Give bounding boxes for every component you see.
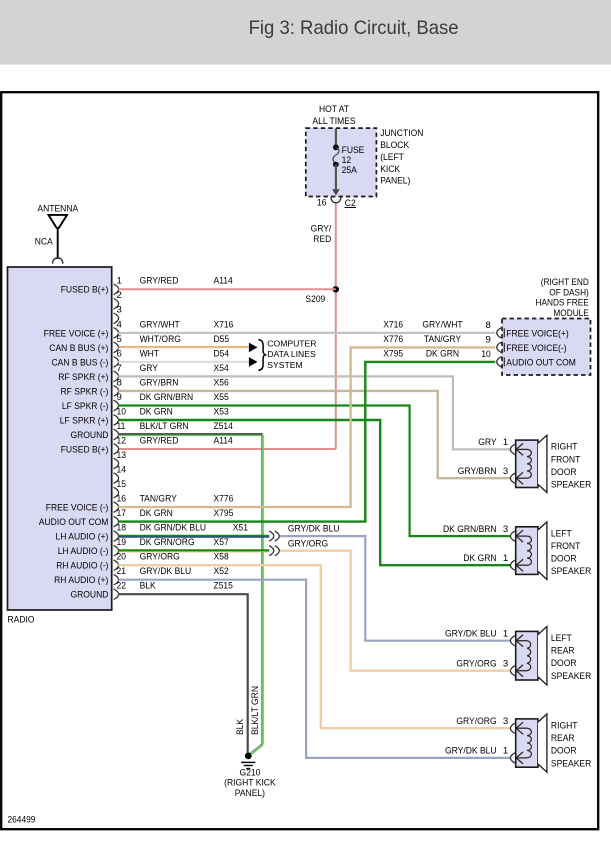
svg-text:8: 8 bbox=[485, 320, 490, 331]
svg-text:(RIGHT END: (RIGHT END bbox=[541, 277, 589, 287]
svg-text:SPEAKER: SPEAKER bbox=[551, 566, 591, 577]
svg-text:GRY/DK BLU: GRY/DK BLU bbox=[288, 524, 340, 535]
svg-text:Z515: Z515 bbox=[214, 581, 233, 592]
svg-text:D54: D54 bbox=[214, 348, 230, 359]
wire DK GRN/DK BLU pin18 to inline connector bbox=[118, 536, 269, 538]
wire GRY/ORG to left rear speaker pin3 bbox=[280, 551, 510, 671]
svg-text:COMPUTER: COMPUTER bbox=[267, 338, 316, 348]
radio pin 3 connector bbox=[114, 313, 119, 324]
svg-text:FREE VOICE (-): FREE VOICE (-) bbox=[46, 503, 109, 514]
radio pin 16 connector bbox=[114, 502, 119, 513]
svg-text:15: 15 bbox=[117, 479, 127, 490]
svg-text:11: 11 bbox=[117, 421, 126, 432]
svg-text:RH AUDIO (+): RH AUDIO (+) bbox=[54, 575, 108, 586]
radio pin 17 connector bbox=[114, 516, 119, 527]
svg-text:GRY/ORG: GRY/ORG bbox=[456, 659, 496, 670]
svg-text:DK GRN: DK GRN bbox=[463, 553, 496, 564]
wire WHT/ORG pin5 to data-lines arrow bbox=[118, 347, 248, 349]
svg-text:SYSTEM: SYSTEM bbox=[267, 360, 302, 370]
svg-text:FRONT: FRONT bbox=[551, 454, 581, 465]
svg-text:1: 1 bbox=[503, 629, 508, 640]
svg-text:RED: RED bbox=[313, 234, 331, 245]
svg-text:GRY/ORG: GRY/ORG bbox=[456, 716, 496, 727]
svg-text:20: 20 bbox=[117, 552, 127, 563]
hands-free pin 10 bbox=[497, 357, 502, 368]
svg-text:GRY/DK BLU: GRY/DK BLU bbox=[140, 566, 192, 577]
svg-text:KICK: KICK bbox=[380, 164, 400, 175]
wire GRY/ORG pin20 to right rear speaker pin3 bbox=[118, 565, 510, 728]
left rear door speaker bbox=[445, 627, 591, 686]
hands free module box bbox=[502, 319, 591, 376]
wire DK GRN pin10 to left front speaker pin1 bbox=[118, 420, 510, 565]
svg-text:GRY/DK BLU: GRY/DK BLU bbox=[445, 629, 497, 640]
svg-text:1: 1 bbox=[503, 553, 508, 564]
svg-text:NCA: NCA bbox=[35, 237, 54, 248]
radio pin 4 connector bbox=[114, 328, 119, 339]
svg-text:GRY/ORG: GRY/ORG bbox=[140, 552, 180, 563]
svg-text:DK GRN: DK GRN bbox=[426, 349, 459, 360]
svg-text:LEFT: LEFT bbox=[551, 528, 572, 539]
wire GRY/RED fuse to S209 to pin12 bbox=[335, 204, 337, 449]
svg-text:PANEL): PANEL) bbox=[380, 176, 410, 187]
hands-free pin 8 bbox=[497, 328, 502, 339]
svg-text:FUSED B(+): FUSED B(+) bbox=[61, 444, 109, 455]
svg-text:DOOR: DOOR bbox=[551, 467, 577, 478]
svg-text:12: 12 bbox=[117, 435, 127, 446]
svg-text:LF SPKR (-): LF SPKR (-) bbox=[62, 401, 109, 412]
svg-text:SPEAKER: SPEAKER bbox=[551, 671, 591, 682]
svg-text:AUDIO OUT COM: AUDIO OUT COM bbox=[39, 517, 109, 528]
svg-text:17: 17 bbox=[117, 508, 127, 519]
svg-text:REAR: REAR bbox=[551, 733, 575, 744]
svg-text:SPEAKER: SPEAKER bbox=[551, 480, 591, 491]
svg-text:GRY/WHT: GRY/WHT bbox=[422, 320, 462, 331]
svg-text:WHT/ORG: WHT/ORG bbox=[140, 334, 181, 345]
radio pin 20 connector bbox=[114, 560, 119, 571]
wire GRY/DK BLU pin21 to right rear speaker pin1 bbox=[118, 580, 510, 758]
svg-text:DOOR: DOOR bbox=[551, 746, 577, 757]
computer data lines arrows bbox=[249, 343, 258, 353]
wire DK GRN/ORG pin19 to inline connector bbox=[118, 550, 269, 552]
svg-text:X52: X52 bbox=[214, 566, 229, 577]
svg-text:3: 3 bbox=[503, 716, 508, 727]
svg-text:X795: X795 bbox=[383, 349, 403, 360]
svg-text:16: 16 bbox=[117, 494, 127, 505]
svg-text:18: 18 bbox=[117, 523, 127, 534]
svg-text:GRY/DK BLU: GRY/DK BLU bbox=[445, 746, 497, 757]
svg-text:MODULE: MODULE bbox=[553, 308, 588, 318]
svg-text:FRONT: FRONT bbox=[551, 541, 581, 552]
svg-text:GRY: GRY bbox=[140, 363, 159, 374]
svg-text:GROUND: GROUND bbox=[71, 590, 109, 601]
radio pin 2 connector bbox=[114, 299, 119, 310]
wire GRY/BRN pin8 to right front speaker pin3 bbox=[118, 391, 510, 478]
svg-text:WHT: WHT bbox=[140, 348, 160, 359]
svg-text:X57: X57 bbox=[214, 537, 229, 548]
wire WHT pin6 to data-lines arrow bbox=[118, 361, 248, 363]
svg-text:19: 19 bbox=[117, 537, 127, 548]
svg-text:GRY/RED: GRY/RED bbox=[140, 435, 179, 446]
svg-text:9: 9 bbox=[485, 334, 490, 345]
svg-text:X55: X55 bbox=[214, 392, 229, 403]
svg-text:RIGHT: RIGHT bbox=[551, 721, 578, 732]
svg-text:1: 1 bbox=[503, 437, 508, 448]
svg-text:G210: G210 bbox=[239, 767, 260, 778]
svg-text:HANDS FREE: HANDS FREE bbox=[536, 298, 589, 308]
radio pin 5 connector bbox=[114, 342, 119, 353]
radio box bbox=[8, 267, 112, 610]
svg-text:LH AUDIO (-): LH AUDIO (-) bbox=[58, 546, 109, 557]
svg-text:CAN B BUS (-): CAN B BUS (-) bbox=[52, 357, 109, 368]
svg-text:GRY/BRN: GRY/BRN bbox=[458, 466, 497, 477]
svg-text:GRY/ORG: GRY/ORG bbox=[288, 538, 328, 549]
svg-text:A114: A114 bbox=[214, 276, 234, 287]
svg-text:RIGHT: RIGHT bbox=[551, 442, 578, 453]
svg-text:S209: S209 bbox=[305, 294, 325, 305]
svg-text:JUNCTION: JUNCTION bbox=[380, 128, 423, 139]
left front door speaker bbox=[443, 522, 591, 580]
svg-text:BLOCK: BLOCK bbox=[380, 140, 410, 151]
radio pin 22 connector bbox=[114, 589, 119, 600]
radio pin 9 connector bbox=[114, 400, 119, 411]
svg-text:ANTENNA: ANTENNA bbox=[37, 203, 78, 214]
svg-text:21: 21 bbox=[117, 566, 127, 577]
wire TAN/GRY pin16 to hands-free pin9 bbox=[118, 347, 495, 507]
svg-text:16: 16 bbox=[317, 198, 327, 209]
svg-text:Fig 3: Radio Circuit, Base: Fig 3: Radio Circuit, Base bbox=[249, 17, 459, 39]
svg-text:FUSED B(+): FUSED B(+) bbox=[61, 285, 109, 296]
svg-text:X795: X795 bbox=[214, 508, 234, 519]
svg-text:TAN/GRY: TAN/GRY bbox=[424, 334, 462, 345]
antenna connector arc bbox=[53, 258, 63, 264]
svg-text:6: 6 bbox=[117, 348, 122, 359]
svg-text:LH AUDIO (+): LH AUDIO (+) bbox=[56, 532, 109, 543]
svg-text:DK GRN: DK GRN bbox=[140, 508, 173, 519]
svg-text:3: 3 bbox=[503, 524, 508, 535]
radio pin 19 connector bbox=[114, 545, 119, 556]
wire DK GRN pin17 to hands-free pin10 bbox=[118, 362, 495, 522]
svg-text:BLK/LT GRN: BLK/LT GRN bbox=[250, 686, 261, 735]
svg-text:Z514: Z514 bbox=[214, 421, 234, 432]
svg-text:10: 10 bbox=[481, 349, 491, 360]
wire GRY/DK BLU to left rear speaker pin1 bbox=[280, 536, 510, 641]
fuse F12 25A bbox=[332, 129, 339, 196]
radio pin 12 connector bbox=[114, 444, 119, 455]
svg-text:DATA LINES: DATA LINES bbox=[267, 349, 316, 359]
svg-text:GROUND: GROUND bbox=[71, 430, 109, 441]
ground G210 bbox=[245, 753, 252, 760]
svg-text:D55: D55 bbox=[214, 334, 230, 345]
svg-text:DOOR: DOOR bbox=[551, 554, 577, 565]
radio pin 14 connector bbox=[114, 473, 119, 484]
svg-text:X51: X51 bbox=[233, 523, 248, 534]
svg-text:X54: X54 bbox=[214, 363, 230, 374]
radio pin 11 connector bbox=[114, 429, 119, 440]
svg-text:OF DASH): OF DASH) bbox=[549, 287, 589, 297]
radio pin 13 connector bbox=[114, 458, 119, 469]
radio pin 7 connector bbox=[114, 371, 119, 382]
svg-text:HOT AT: HOT AT bbox=[319, 104, 349, 115]
svg-text:10: 10 bbox=[117, 406, 127, 417]
junction block box bbox=[306, 128, 377, 196]
svg-text:GRY/RED: GRY/RED bbox=[140, 276, 179, 287]
right front door speaker bbox=[458, 435, 592, 492]
svg-text:X776: X776 bbox=[214, 494, 234, 505]
wire BLK/LT GRN pin11 to ground G210 bbox=[118, 434, 262, 436]
svg-text:X716: X716 bbox=[383, 320, 403, 331]
svg-text:DK GRN: DK GRN bbox=[140, 406, 173, 417]
radio pin 18 connector bbox=[114, 531, 119, 542]
svg-text:RF SPKR (-): RF SPKR (-) bbox=[61, 386, 109, 397]
svg-text:13: 13 bbox=[117, 450, 127, 461]
radio pin 6 connector bbox=[114, 357, 119, 368]
svg-text:4: 4 bbox=[117, 319, 123, 330]
svg-text:3: 3 bbox=[503, 466, 508, 477]
svg-text:A114: A114 bbox=[214, 435, 234, 446]
svg-text:1: 1 bbox=[503, 746, 508, 757]
svg-text:X776: X776 bbox=[383, 334, 403, 345]
svg-text:22: 22 bbox=[117, 581, 127, 592]
svg-text:BLK/LT GRN: BLK/LT GRN bbox=[140, 421, 189, 432]
svg-text:X716: X716 bbox=[214, 319, 234, 330]
svg-text:DK GRN/DK BLU: DK GRN/DK BLU bbox=[140, 523, 206, 534]
svg-text:BLK: BLK bbox=[235, 718, 246, 735]
radio pin 10 connector bbox=[114, 415, 119, 426]
svg-text:FREE VOICE(-): FREE VOICE(-) bbox=[506, 343, 566, 354]
svg-text:1: 1 bbox=[117, 276, 122, 287]
radio pin 15 connector bbox=[114, 487, 119, 498]
svg-text:ALL TIMES: ALL TIMES bbox=[312, 116, 355, 127]
right rear door speaker bbox=[445, 714, 591, 772]
svg-text:9: 9 bbox=[117, 392, 122, 403]
svg-text:PANEL): PANEL) bbox=[235, 788, 265, 799]
svg-text:264499: 264499 bbox=[8, 815, 36, 825]
wire GRY/WHT pin4 to hands-free pin8 bbox=[118, 332, 495, 334]
svg-text:RH AUDIO (-): RH AUDIO (-) bbox=[56, 561, 108, 572]
svg-text:DK GRN/ORG: DK GRN/ORG bbox=[140, 537, 195, 548]
svg-text:CAN B BUS (+): CAN B BUS (+) bbox=[49, 343, 108, 354]
svg-text:14: 14 bbox=[117, 465, 127, 476]
svg-text:RF SPKR (+): RF SPKR (+) bbox=[58, 372, 108, 383]
wire DK GRN/BRN pin9 to left front speaker pin3 bbox=[118, 406, 510, 537]
svg-text:REAR: REAR bbox=[551, 646, 575, 657]
svg-text:DOOR: DOOR bbox=[551, 658, 577, 669]
wire GRY pin7 to right front speaker pin1 bbox=[118, 376, 510, 449]
svg-text:GRY/BRN: GRY/BRN bbox=[140, 377, 179, 388]
svg-text:RADIO: RADIO bbox=[8, 614, 35, 625]
svg-text:LF SPKR (+): LF SPKR (+) bbox=[60, 415, 109, 426]
svg-text:LEFT: LEFT bbox=[551, 633, 572, 644]
radio pin 1 connector bbox=[114, 284, 119, 295]
svg-text:5: 5 bbox=[117, 334, 122, 345]
svg-text:SPEAKER: SPEAKER bbox=[551, 758, 591, 769]
svg-text:25A: 25A bbox=[342, 165, 358, 176]
svg-text:7: 7 bbox=[117, 363, 122, 374]
svg-text:TAN/GRY: TAN/GRY bbox=[140, 494, 178, 505]
inline connector X51 row18 bbox=[269, 531, 274, 541]
inline connector row19 bbox=[269, 546, 274, 556]
node S209 bbox=[333, 286, 339, 292]
svg-text:X56: X56 bbox=[214, 377, 229, 388]
svg-text:GRY/WHT: GRY/WHT bbox=[140, 319, 180, 330]
svg-text:BLK: BLK bbox=[140, 581, 157, 592]
svg-text:GRY: GRY bbox=[478, 437, 497, 448]
svg-text:FREE VOICE (+): FREE VOICE (+) bbox=[44, 328, 109, 339]
radio pin 8 connector bbox=[114, 386, 119, 397]
svg-text:(LEFT: (LEFT bbox=[380, 152, 404, 163]
header bar bbox=[0, 0, 611, 65]
wire BLK pin22 to ground G210 bbox=[118, 594, 247, 753]
radio pin 21 connector bbox=[114, 574, 119, 585]
svg-text:FREE VOICE(+): FREE VOICE(+) bbox=[506, 329, 568, 340]
svg-text:AUDIO OUT COM: AUDIO OUT COM bbox=[506, 358, 576, 369]
wire GRY/RED pin1 to S209 bbox=[118, 288, 335, 290]
brace bbox=[258, 340, 266, 371]
svg-text:DK GRN/BRN: DK GRN/BRN bbox=[443, 524, 497, 535]
svg-text:8: 8 bbox=[117, 377, 122, 388]
svg-text:X53: X53 bbox=[214, 406, 229, 417]
svg-text:2: 2 bbox=[117, 290, 122, 301]
hands-free pin 9 bbox=[497, 342, 502, 353]
svg-text:3: 3 bbox=[117, 305, 122, 316]
svg-text:X58: X58 bbox=[214, 552, 229, 563]
svg-text:DK GRN/BRN: DK GRN/BRN bbox=[140, 392, 194, 403]
svg-text:3: 3 bbox=[503, 659, 508, 670]
